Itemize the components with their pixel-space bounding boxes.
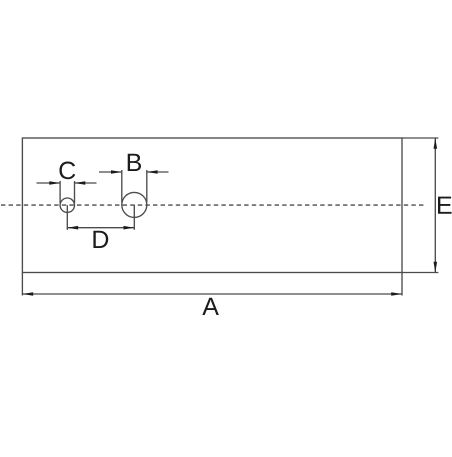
dimension A — [22, 273, 402, 296]
dimension B — [99, 170, 169, 202]
label E — [438, 197, 452, 214]
hole C (small) — [60, 198, 74, 212]
dimension E — [402, 138, 438, 273]
plate outline — [22, 138, 402, 273]
label A — [202, 298, 219, 315]
dimension D — [67, 205, 134, 230]
label C — [59, 162, 75, 180]
hole B (large) — [122, 192, 147, 217]
dimension C — [37, 181, 97, 203]
label B — [128, 154, 141, 171]
centerline — [1, 204, 425, 206]
label D — [93, 231, 108, 248]
